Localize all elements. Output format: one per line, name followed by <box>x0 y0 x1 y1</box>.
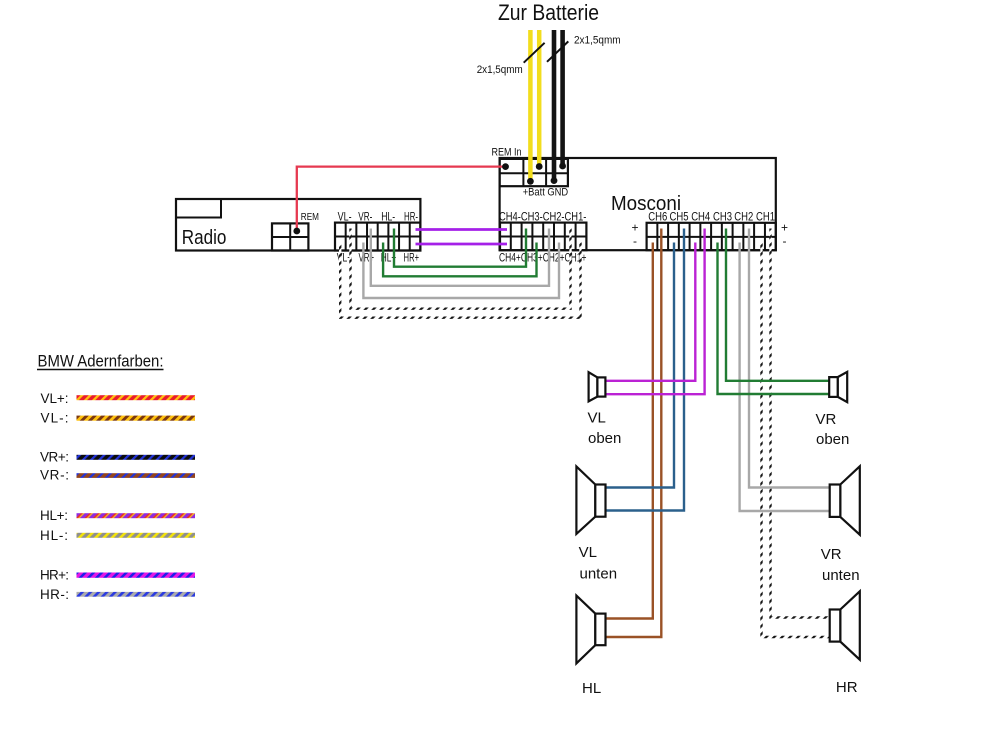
svg-text:Radio: Radio <box>182 227 227 249</box>
svg-text:VR-: VR- <box>358 210 372 224</box>
svg-text:CH2: CH2 <box>734 210 753 224</box>
svg-text:CH5: CH5 <box>670 210 689 224</box>
svg-text:+: + <box>631 221 638 235</box>
svg-text:VL-: VL- <box>338 210 352 224</box>
svg-text:+Batt GND: +Batt GND <box>523 186 569 198</box>
svg-text:HL+:: HL+: <box>40 508 68 523</box>
svg-text:VR-:: VR-: <box>40 468 69 483</box>
svg-text:HR+:: HR+: <box>40 568 69 583</box>
svg-text:unten: unten <box>580 566 618 583</box>
svg-text:CH4-CH3-CH2-CH1-: CH4-CH3-CH2-CH1- <box>499 212 587 224</box>
svg-text:VR: VR <box>821 546 842 563</box>
svg-text:HR-:: HR-: <box>40 587 69 602</box>
svg-text:VL+:: VL+: <box>41 391 69 406</box>
svg-text:HL-:: HL-: <box>40 528 68 543</box>
svg-text:-: - <box>783 234 787 248</box>
svg-text:Zur Batterie: Zur Batterie <box>498 0 599 25</box>
svg-text:oben: oben <box>816 431 849 448</box>
svg-text:HR-: HR- <box>404 210 418 224</box>
svg-text:VL: VL <box>588 409 606 426</box>
svg-text:BMW Adernfarben:: BMW Adernfarben: <box>38 351 164 370</box>
svg-text:2x1,5qmm: 2x1,5qmm <box>477 64 523 76</box>
svg-text:oben: oben <box>588 430 621 447</box>
svg-text:HR+: HR+ <box>404 251 420 265</box>
svg-text:+: + <box>781 221 788 235</box>
svg-text:VR: VR <box>816 411 837 428</box>
svg-text:CH1: CH1 <box>756 210 775 224</box>
svg-text:CH3: CH3 <box>713 210 732 224</box>
svg-text:VR+:: VR+: <box>40 450 69 465</box>
svg-text:VL: VL <box>579 544 597 561</box>
svg-text:unten: unten <box>822 567 860 584</box>
svg-text:HL-: HL- <box>381 210 395 224</box>
svg-text:CH4+CH3+CH2+CH1+: CH4+CH3+CH2+CH1+ <box>499 253 587 265</box>
svg-text:CH4: CH4 <box>691 210 710 224</box>
svg-text:HL: HL <box>582 680 601 697</box>
svg-text:HR: HR <box>836 679 858 696</box>
svg-text:CH6: CH6 <box>648 210 667 224</box>
svg-text:2x1,5qmm: 2x1,5qmm <box>574 35 621 47</box>
svg-text:-: - <box>633 234 637 248</box>
svg-text:REM: REM <box>301 211 319 223</box>
svg-text:REM In: REM In <box>492 147 522 159</box>
svg-text:VL-:: VL-: <box>41 411 69 426</box>
